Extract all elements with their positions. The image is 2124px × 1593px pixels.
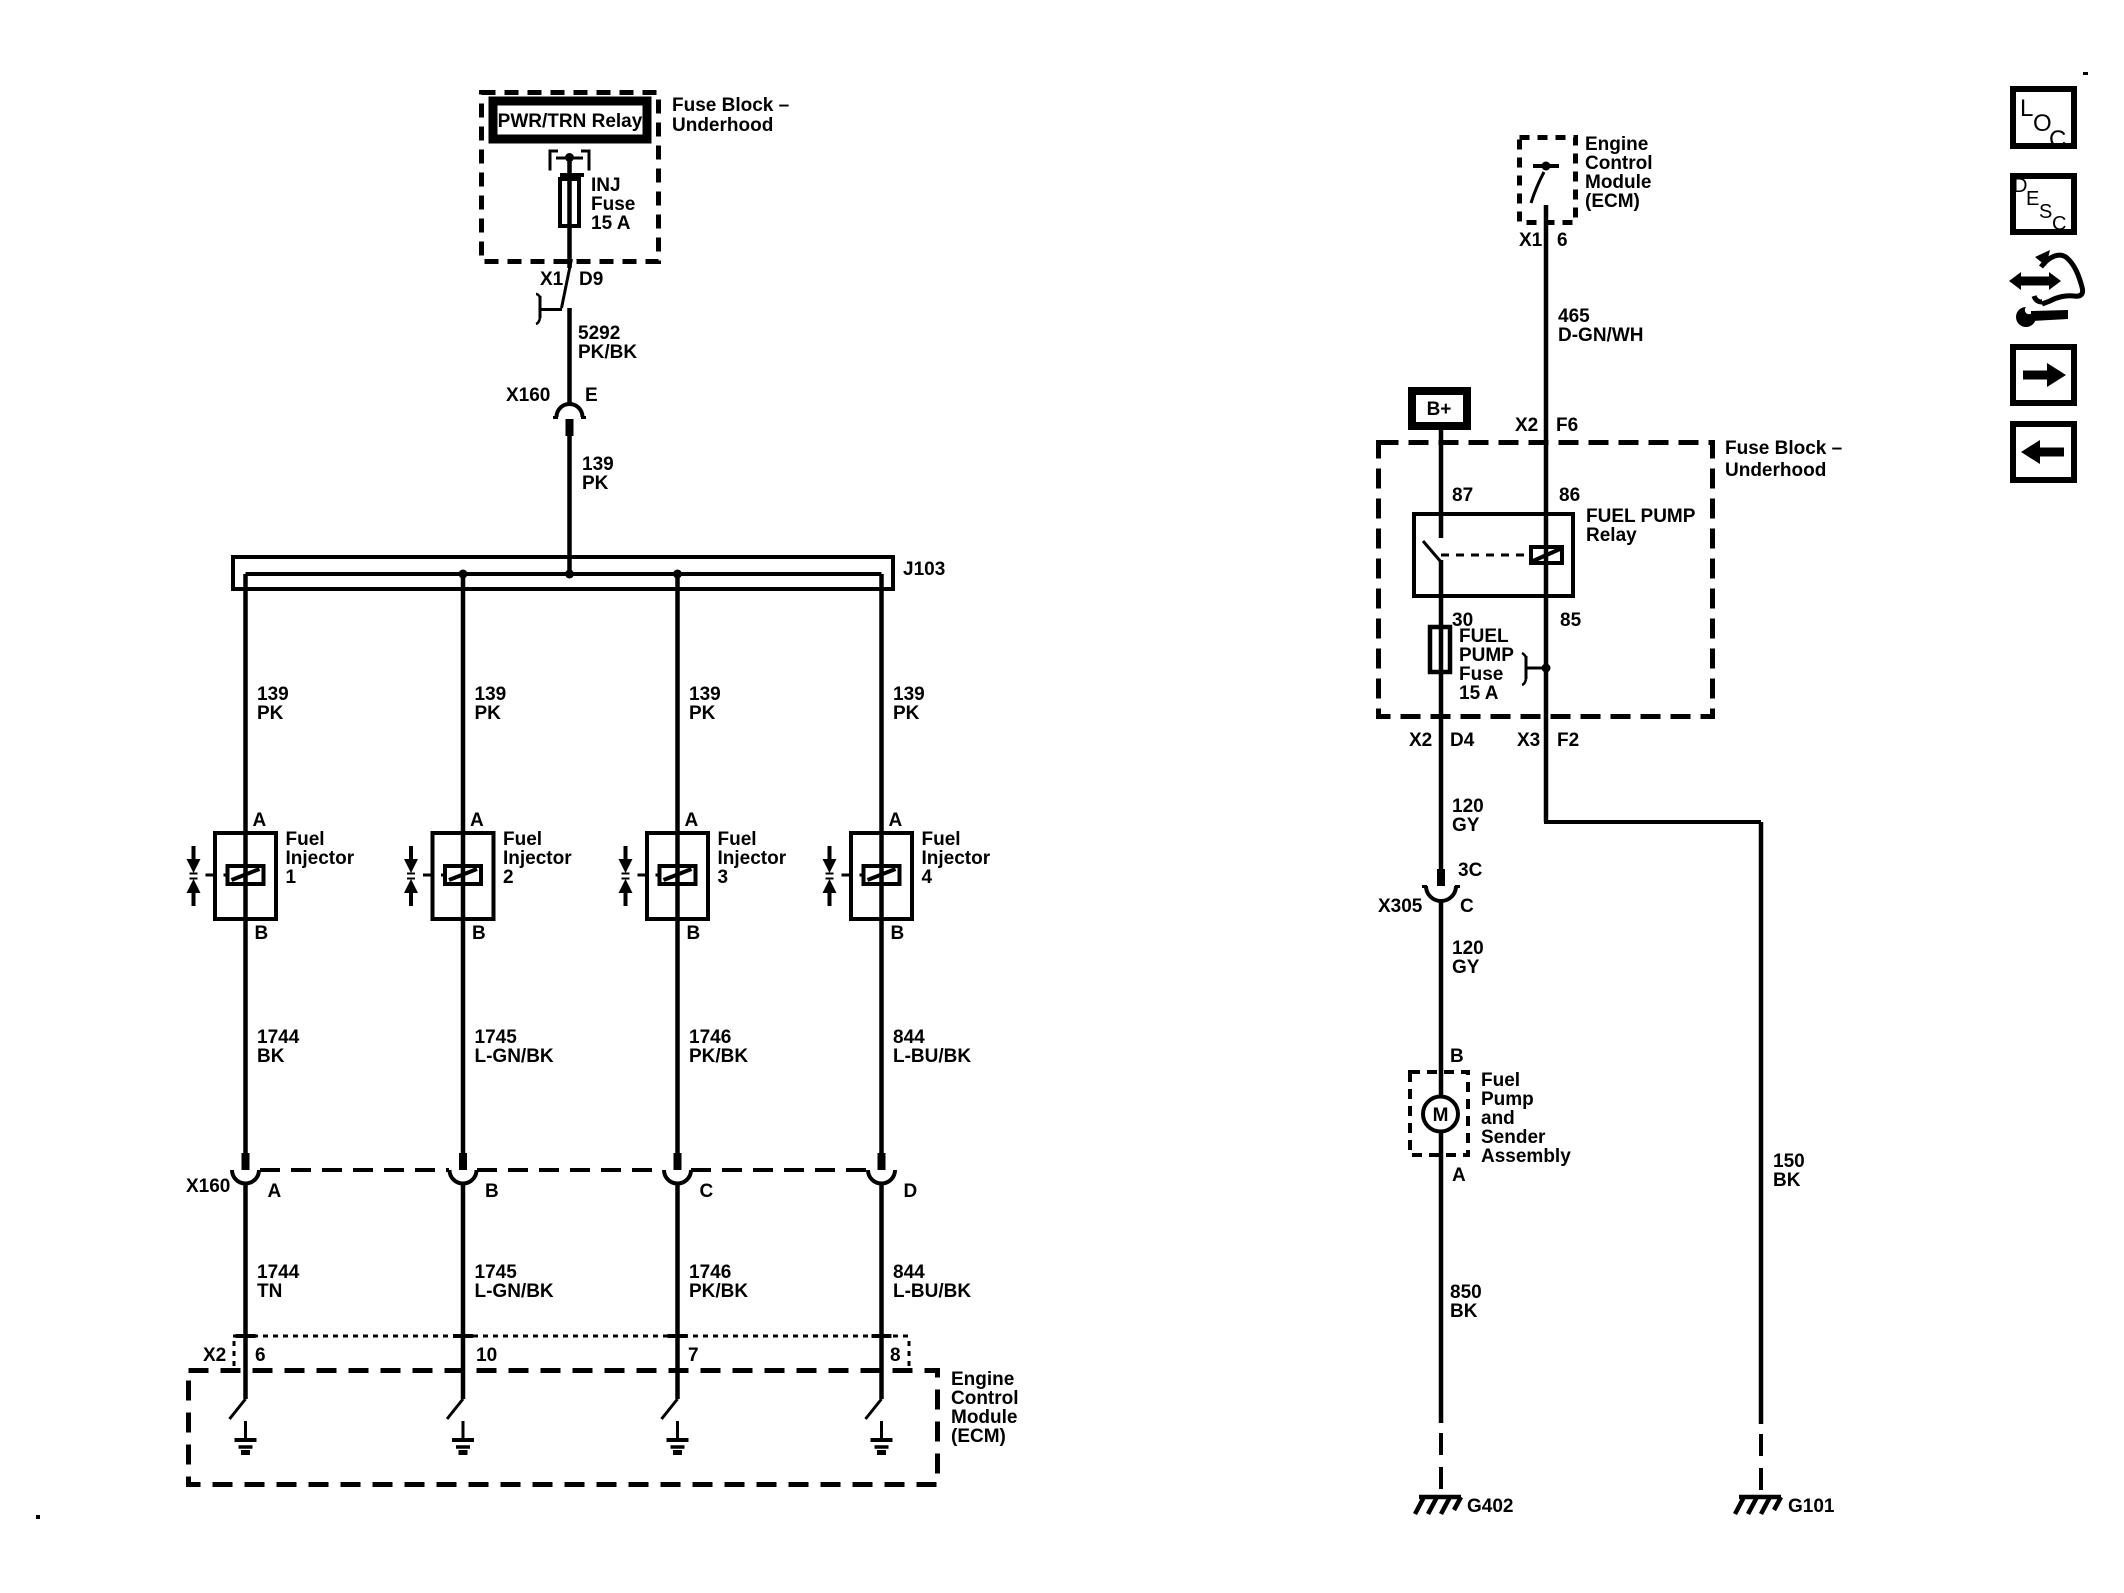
svg-text:L-GN/BK: L-GN/BK — [475, 1281, 554, 1302]
svg-text:(ECM): (ECM) — [951, 1426, 1006, 1447]
svg-text:8: 8 — [890, 1345, 901, 1366]
svg-text:L-BU/BK: L-BU/BK — [893, 1046, 971, 1067]
svg-text:F2: F2 — [1557, 730, 1579, 751]
svg-text:Injector: Injector — [286, 848, 355, 869]
svg-text:Fuel: Fuel — [922, 829, 961, 850]
svg-text:X305: X305 — [1378, 896, 1423, 917]
svg-text:1746: 1746 — [689, 1262, 731, 1283]
svg-text:1746: 1746 — [689, 1027, 731, 1048]
svg-text:Control: Control — [951, 1388, 1019, 1409]
svg-text:BK: BK — [1773, 1170, 1801, 1191]
svg-text:A: A — [685, 810, 699, 831]
svg-text:A: A — [470, 810, 484, 831]
svg-text:120: 120 — [1452, 938, 1484, 959]
svg-text:844: 844 — [893, 1262, 925, 1283]
svg-text:844: 844 — [893, 1027, 925, 1048]
svg-text:Injector: Injector — [718, 848, 787, 869]
svg-text:4: 4 — [922, 867, 933, 888]
svg-text:465: 465 — [1558, 306, 1590, 327]
svg-text:Underhood: Underhood — [672, 115, 773, 136]
svg-text:J103: J103 — [903, 559, 945, 580]
svg-text:3: 3 — [718, 867, 729, 888]
svg-text:1745: 1745 — [475, 1262, 518, 1283]
svg-text:X3: X3 — [1517, 730, 1540, 751]
svg-text:L-BU/BK: L-BU/BK — [893, 1281, 971, 1302]
svg-text:A: A — [268, 1181, 282, 1202]
svg-text:B: B — [687, 923, 701, 944]
svg-text:Engine: Engine — [1585, 134, 1648, 155]
svg-text:X1: X1 — [1519, 230, 1543, 251]
svg-text:3C: 3C — [1458, 860, 1483, 881]
svg-text:A: A — [253, 810, 267, 831]
svg-text:X160: X160 — [186, 1176, 230, 1197]
svg-text:D: D — [904, 1181, 918, 1202]
svg-text:Injector: Injector — [503, 848, 572, 869]
svg-text:Control: Control — [1585, 153, 1653, 174]
svg-text:C: C — [2052, 213, 2066, 235]
svg-text:1744: 1744 — [257, 1262, 300, 1283]
svg-text:Fuse: Fuse — [1459, 664, 1503, 685]
svg-text:FUEL: FUEL — [1459, 626, 1509, 647]
svg-text:139: 139 — [689, 684, 721, 705]
svg-text:L-GN/BK: L-GN/BK — [475, 1046, 554, 1067]
svg-text:A: A — [889, 810, 903, 831]
svg-text:Module: Module — [951, 1407, 1018, 1428]
svg-text:B+: B+ — [1427, 399, 1452, 420]
svg-text:M: M — [1433, 1105, 1449, 1126]
svg-text:PUMP: PUMP — [1459, 645, 1514, 666]
svg-text:PK/BK: PK/BK — [689, 1281, 748, 1302]
svg-text:BK: BK — [1450, 1301, 1478, 1322]
svg-text:15 A: 15 A — [591, 213, 631, 234]
svg-text:Pump: Pump — [1481, 1089, 1534, 1110]
svg-text:B: B — [891, 923, 905, 944]
svg-text:139: 139 — [475, 684, 507, 705]
svg-text:G402: G402 — [1467, 1496, 1513, 1517]
svg-text:B: B — [1450, 1046, 1464, 1067]
svg-text:PK/BK: PK/BK — [689, 1046, 748, 1067]
svg-text:Fuel: Fuel — [286, 829, 325, 850]
svg-text:87: 87 — [1452, 485, 1473, 506]
svg-text:C: C — [1460, 896, 1474, 917]
svg-text:GY: GY — [1452, 815, 1480, 836]
svg-text:Module: Module — [1585, 172, 1652, 193]
svg-text:G101: G101 — [1788, 1496, 1835, 1517]
svg-text:A: A — [1452, 1165, 1466, 1186]
svg-text:Assembly: Assembly — [1481, 1146, 1571, 1167]
svg-text:6: 6 — [255, 1345, 266, 1366]
svg-text:150: 150 — [1773, 1151, 1805, 1172]
svg-text:120: 120 — [1452, 796, 1484, 817]
svg-text:BK: BK — [257, 1046, 285, 1067]
svg-text:Underhood: Underhood — [1725, 460, 1826, 481]
svg-text:15 A: 15 A — [1459, 683, 1499, 704]
svg-text:X160: X160 — [506, 385, 550, 406]
svg-text:7: 7 — [688, 1345, 699, 1366]
svg-text:Relay: Relay — [1586, 525, 1637, 546]
svg-text:850: 850 — [1450, 1282, 1482, 1303]
svg-text:L: L — [2020, 95, 2033, 122]
svg-text:10: 10 — [476, 1345, 497, 1366]
svg-text:X2: X2 — [203, 1345, 226, 1366]
svg-text:Fuel: Fuel — [718, 829, 757, 850]
svg-text:PK: PK — [582, 473, 609, 494]
svg-text:D-GN/WH: D-GN/WH — [1558, 325, 1643, 346]
svg-text:PK: PK — [689, 703, 716, 724]
svg-text:Fuse Block –: Fuse Block – — [672, 95, 789, 116]
svg-text:1745: 1745 — [475, 1027, 518, 1048]
svg-text:B: B — [472, 923, 486, 944]
svg-text:Injector: Injector — [922, 848, 991, 869]
svg-text:139: 139 — [582, 454, 614, 475]
svg-text:B: B — [255, 923, 269, 944]
svg-text:D9: D9 — [579, 269, 603, 290]
svg-text:1: 1 — [286, 867, 297, 888]
svg-text:E: E — [585, 385, 598, 406]
svg-text:139: 139 — [257, 684, 289, 705]
svg-text:E: E — [2026, 188, 2039, 210]
svg-text:86: 86 — [1559, 485, 1580, 506]
svg-text:and: and — [1481, 1108, 1515, 1129]
svg-text:Fuel: Fuel — [1481, 1070, 1520, 1091]
svg-text:PK/BK: PK/BK — [578, 342, 637, 363]
svg-text:139: 139 — [893, 684, 925, 705]
svg-text:Fuse: Fuse — [591, 194, 635, 215]
svg-text:Engine: Engine — [951, 1369, 1014, 1390]
svg-text:Fuse Block –: Fuse Block – — [1725, 438, 1842, 459]
svg-text:PK: PK — [893, 703, 920, 724]
svg-text:D4: D4 — [1450, 730, 1475, 751]
svg-text:X1: X1 — [540, 269, 564, 290]
svg-text:Sender: Sender — [1481, 1127, 1546, 1148]
svg-text:1744: 1744 — [257, 1027, 300, 1048]
svg-text:85: 85 — [1560, 610, 1582, 631]
svg-text:5292: 5292 — [578, 323, 620, 344]
svg-text:GY: GY — [1452, 957, 1480, 978]
svg-text:(ECM): (ECM) — [1585, 191, 1640, 212]
svg-text:S: S — [2039, 201, 2052, 223]
svg-text:INJ: INJ — [591, 175, 621, 196]
svg-text:2: 2 — [503, 867, 514, 888]
svg-text:C: C — [2049, 126, 2066, 153]
svg-text:PWR/TRN Relay: PWR/TRN Relay — [498, 111, 643, 132]
svg-text:TN: TN — [257, 1281, 282, 1302]
svg-text:X2: X2 — [1409, 730, 1432, 751]
svg-text:B: B — [485, 1181, 499, 1202]
svg-text:FUEL PUMP: FUEL PUMP — [1586, 506, 1696, 527]
svg-text:PK: PK — [475, 703, 502, 724]
svg-text:C: C — [700, 1181, 714, 1202]
svg-text:Fuel: Fuel — [503, 829, 542, 850]
svg-text:PK: PK — [257, 703, 284, 724]
svg-text:X2: X2 — [1515, 415, 1538, 436]
svg-text:6: 6 — [1557, 230, 1568, 251]
svg-text:F6: F6 — [1556, 415, 1578, 436]
